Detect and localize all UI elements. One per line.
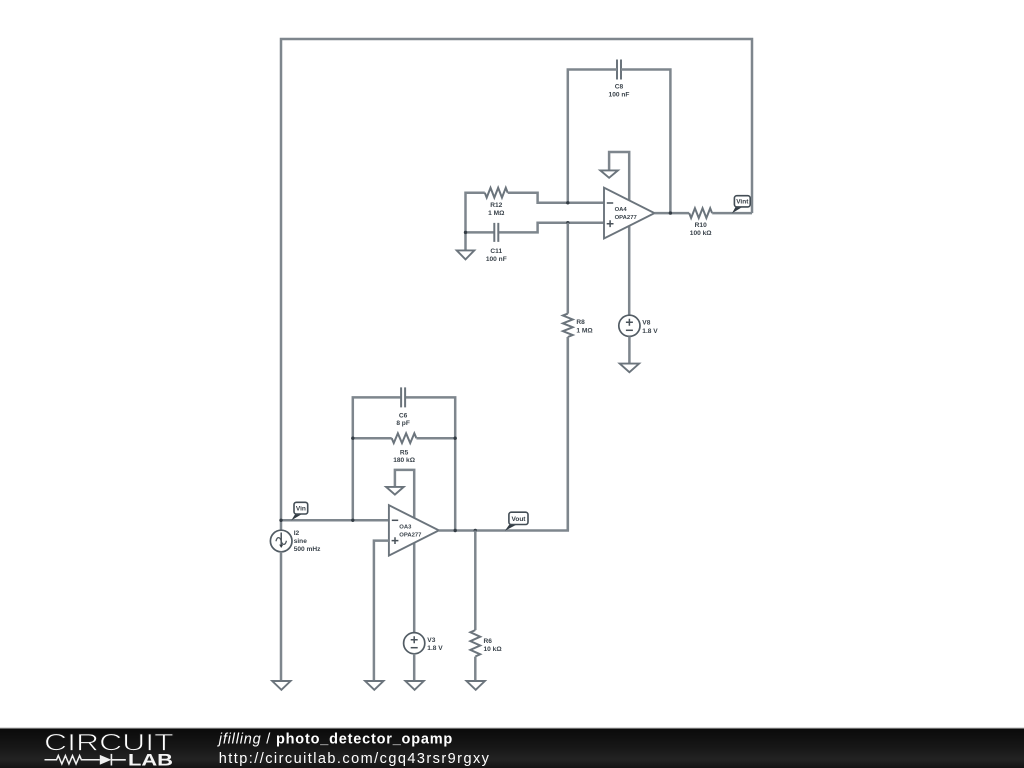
svg-text:C8: C8: [615, 84, 624, 91]
svg-text:R8: R8: [576, 319, 585, 326]
ground below R6: [467, 681, 485, 690]
resistor R6: [470, 531, 502, 682]
node junction R5 right: [454, 437, 457, 440]
capacitor C8: [609, 60, 630, 99]
voltage source V3: [404, 633, 444, 654]
node junction R5 left: [351, 437, 354, 440]
svg-text:C11: C11: [490, 248, 502, 255]
logo resistor squiggle: [45, 756, 100, 764]
svg-text:OA3: OA3: [399, 524, 412, 530]
op-amp OA3: [389, 505, 439, 555]
wire OA3 plus input: [374, 541, 389, 681]
ground below V8: [620, 364, 639, 373]
wire OA4 output: [655, 212, 690, 215]
svg-text:LAB: LAB: [128, 752, 173, 768]
wire OA3 power: [395, 470, 414, 633]
svg-text:500 mHz: 500 mHz: [294, 546, 321, 553]
svg-text:R12: R12: [490, 202, 502, 209]
svg-text:1 MΩ: 1 MΩ: [488, 210, 505, 217]
svg-text:8 pF: 8 pF: [396, 420, 410, 427]
svg-text:R5: R5: [400, 449, 409, 456]
svg-text:100 nF: 100 nF: [609, 91, 630, 98]
ground below C11: [457, 250, 475, 259]
svg-text:http://circuitlab.com/cgq43rsr: http://circuitlab.com/cgq43rsr9rgxy: [219, 751, 491, 767]
svg-text:1 MΩ: 1 MΩ: [576, 327, 593, 334]
wire V3 to ground: [413, 654, 416, 681]
footer bar: [0, 728, 1024, 768]
op-amp OA4: [604, 188, 655, 239]
node junction output-loop: [454, 529, 457, 532]
resistor R5: [353, 433, 455, 464]
node flag Vin: [291, 502, 307, 520]
wire OA3 minus input: [281, 519, 389, 522]
node junction C11 left: [464, 231, 467, 234]
svg-text:Vint: Vint: [736, 199, 749, 206]
svg-text:jfilling / photo_detector_opam: jfilling / photo_detector_opamp: [217, 732, 453, 748]
svg-text:OPA277: OPA277: [615, 215, 638, 221]
svg-text:R10: R10: [695, 222, 707, 229]
svg-text:1.8 V: 1.8 V: [427, 645, 443, 652]
resistor R8: [563, 223, 593, 531]
ground OA4 top: [600, 170, 618, 177]
wire OA3 output: [439, 337, 568, 531]
current source I2: [270, 530, 321, 553]
svg-text:Vin: Vin: [296, 506, 306, 513]
svg-text:1.8 V: 1.8 V: [642, 328, 658, 335]
svg-text:C6: C6: [399, 412, 408, 419]
node flag Vint: [732, 196, 750, 214]
svg-text:OPA277: OPA277: [399, 533, 422, 539]
node junction R12-C8: [566, 201, 569, 204]
svg-text:180 kΩ: 180 kΩ: [393, 457, 416, 464]
svg-text:I2: I2: [294, 530, 300, 537]
node junction loop left: [351, 519, 354, 522]
wire C8 right branch: [621, 70, 670, 214]
svg-text:100 nF: 100 nF: [486, 256, 507, 263]
logo diode: [100, 755, 112, 765]
node junction Vin: [279, 519, 282, 522]
node junction output-C8: [669, 211, 672, 214]
wire OA4 power: [609, 152, 629, 315]
svg-text:V3: V3: [427, 637, 435, 644]
capacitor C11: [466, 223, 605, 263]
wire outer loop: [281, 39, 752, 531]
svg-text:OA4: OA4: [615, 207, 628, 213]
wire V8 to ground: [628, 336, 631, 364]
voltage source V8: [619, 315, 658, 336]
ground below plus input: [365, 681, 383, 690]
svg-text:V8: V8: [642, 320, 650, 327]
svg-text:sine: sine: [294, 538, 308, 545]
svg-text:10 kΩ: 10 kΩ: [484, 646, 503, 653]
wire I2 to ground: [280, 552, 283, 681]
node flag Vout: [505, 512, 528, 531]
resistor R10: [689, 208, 752, 237]
svg-text:100 kΩ: 100 kΩ: [690, 230, 713, 237]
svg-text:Vout: Vout: [512, 516, 527, 523]
svg-text:R6: R6: [484, 638, 493, 645]
ground below V3: [405, 681, 423, 690]
node junction C11-R8: [566, 221, 569, 224]
ground below I2: [272, 681, 290, 690]
ground OA3 top: [386, 487, 404, 495]
resistor R12: [466, 188, 605, 251]
wire C8 left branch: [568, 70, 617, 203]
capacitor C6: [353, 387, 455, 530]
node junction output-R6: [474, 529, 477, 532]
